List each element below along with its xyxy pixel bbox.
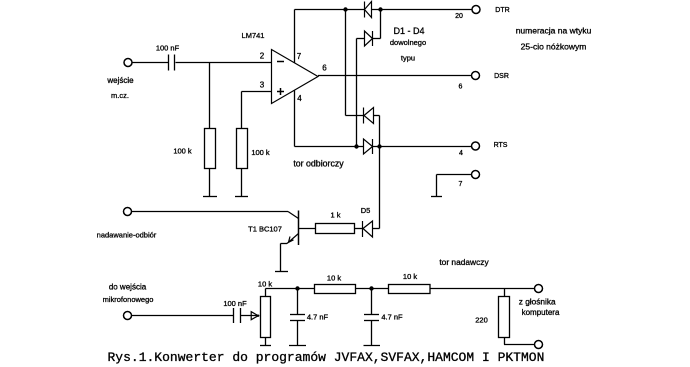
svg-text:1 k: 1 k: [330, 211, 340, 220]
svg-text:typu: typu: [401, 53, 415, 62]
svg-text:2: 2: [260, 52, 265, 61]
svg-text:100 nF: 100 nF: [156, 44, 180, 53]
svg-text:RTS: RTS: [494, 142, 508, 149]
svg-text:4.7 nF: 4.7 nF: [307, 313, 329, 322]
svg-text:7: 7: [459, 181, 463, 188]
svg-text:nadawanie-odbiór: nadawanie-odbiór: [97, 231, 157, 240]
svg-text:10 k: 10 k: [403, 272, 417, 281]
svg-text:7: 7: [297, 52, 302, 61]
svg-text:numeracja na wtyku: numeracja na wtyku: [516, 26, 592, 36]
svg-text:100 nF: 100 nF: [223, 299, 247, 308]
svg-text:wejście: wejście: [106, 76, 134, 85]
svg-text:6: 6: [322, 64, 327, 73]
svg-text:3: 3: [260, 81, 265, 90]
svg-text:25-cio nóżkowym: 25-cio nóżkowym: [521, 42, 587, 52]
svg-text:do wejścia: do wejścia: [109, 283, 147, 292]
svg-text:LM741: LM741: [242, 31, 265, 40]
svg-text:m.cz.: m.cz.: [111, 91, 129, 100]
svg-text:10 k: 10 k: [327, 274, 341, 283]
svg-text:20: 20: [455, 13, 463, 20]
svg-text:10 k: 10 k: [258, 279, 272, 288]
svg-text:DSR: DSR: [494, 73, 509, 80]
svg-text:D1 - D4: D1 - D4: [393, 26, 424, 36]
svg-text:100 k: 100 k: [251, 148, 270, 157]
svg-text:4.7 nF: 4.7 nF: [381, 313, 403, 322]
svg-text:DTR: DTR: [495, 7, 509, 14]
svg-text:tor nadawczy: tor nadawczy: [439, 257, 489, 267]
svg-text:T1 BC107: T1 BC107: [248, 225, 282, 234]
svg-text:4: 4: [459, 150, 463, 157]
svg-text:dowolnego: dowolnego: [390, 38, 426, 47]
svg-text:komputera: komputera: [522, 308, 560, 317]
svg-text:D5: D5: [361, 206, 371, 215]
svg-text:4: 4: [297, 94, 302, 103]
svg-text:220: 220: [475, 316, 488, 325]
svg-text:tor odbiorczy: tor odbiorczy: [293, 159, 344, 169]
svg-text:mikrofonowego: mikrofonowego: [103, 295, 154, 304]
svg-text:6: 6: [459, 84, 463, 91]
svg-text:100 k: 100 k: [173, 147, 192, 156]
svg-text:Rys.1.Konwerter do programów J: Rys.1.Konwerter do programów JVFAX,SVFAX…: [108, 350, 545, 365]
svg-text:z głośnika: z głośnika: [519, 297, 556, 307]
